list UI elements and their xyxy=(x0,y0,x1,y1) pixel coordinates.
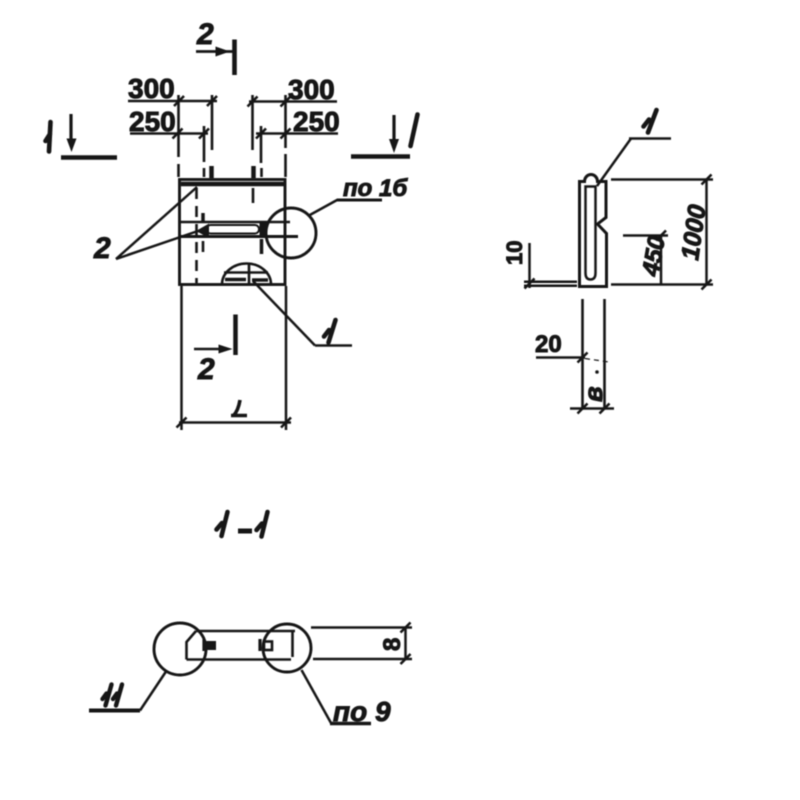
section mark 1 left xyxy=(46,114,118,158)
plan view slot right arrowhead xyxy=(260,223,268,237)
section 1-1 right detail circle xyxy=(263,624,311,672)
leader to label po 1b xyxy=(308,175,408,216)
svg-text:2: 2 xyxy=(93,232,111,265)
dimension 300 right xyxy=(248,74,338,107)
plan view centerline dash below band right xyxy=(260,239,264,254)
side view lower right line xyxy=(603,299,606,410)
label 11 section xyxy=(89,672,166,711)
dimension 250 left xyxy=(129,106,209,139)
plan view slot left arrowhead xyxy=(196,224,209,239)
bottom arc on plan xyxy=(222,263,271,285)
plan view dashed centerline inner left xyxy=(195,188,198,283)
dimension 10 side xyxy=(502,241,577,289)
plan view top thick band xyxy=(181,182,284,187)
section mark 1 right xyxy=(351,115,418,157)
section mark 2 bottom xyxy=(194,315,236,387)
section 1-1 plate outline xyxy=(187,631,296,660)
dimension 8 section xyxy=(311,623,412,665)
svg-text:в: в xyxy=(578,386,608,402)
section 1-1 right weld mark xyxy=(260,639,272,651)
detail circle on plan xyxy=(266,208,316,258)
section 1-1 left weld mark xyxy=(204,640,216,652)
extension line below square left xyxy=(180,286,183,430)
dimension 1000 side xyxy=(611,175,713,290)
side view lower left line xyxy=(581,299,584,410)
dimension 250 right xyxy=(256,106,340,139)
extension line 300 left end xyxy=(210,95,213,178)
plan view dashed short inner right xyxy=(252,188,255,203)
svg-text:10: 10 xyxy=(502,241,527,265)
side view outer outline xyxy=(580,175,607,287)
leader to label 1 plan xyxy=(253,281,352,346)
side view inner slot xyxy=(586,187,596,280)
svg-text:2: 2 xyxy=(197,353,215,386)
title 1-1 xyxy=(217,512,268,537)
extension line 250 left end xyxy=(203,126,206,177)
plan view middle band bottom line xyxy=(180,235,298,238)
plan view square outline xyxy=(180,180,286,285)
label 1 side view xyxy=(597,110,671,186)
svg-text:8: 8 xyxy=(379,638,406,651)
extension line right edge xyxy=(284,95,287,177)
section mark 2 top xyxy=(196,18,235,75)
plan view slot xyxy=(207,225,260,234)
bottom dimension line l xyxy=(177,400,292,428)
extension line below square right xyxy=(285,286,288,430)
svg-text:2: 2 xyxy=(196,18,214,51)
label po 9 section xyxy=(302,670,391,727)
dimension b side xyxy=(570,386,614,414)
plan view centerline dash above band left xyxy=(201,213,205,252)
extension line left edge xyxy=(177,95,180,177)
dimension 300 left xyxy=(128,73,217,106)
svg-text:300: 300 xyxy=(128,73,175,104)
dimension 20 side xyxy=(535,331,609,374)
dimension 450 side xyxy=(623,231,671,285)
extension line 250 right end xyxy=(260,126,263,177)
label 2 with leaders left xyxy=(93,187,198,265)
svg-text:по 1б: по 1б xyxy=(343,175,408,202)
svg-text:20: 20 xyxy=(535,331,562,358)
extension line 300 right end xyxy=(253,95,254,178)
plan view middle band top line xyxy=(180,221,290,224)
section 1-1 left detail circle xyxy=(154,623,206,675)
